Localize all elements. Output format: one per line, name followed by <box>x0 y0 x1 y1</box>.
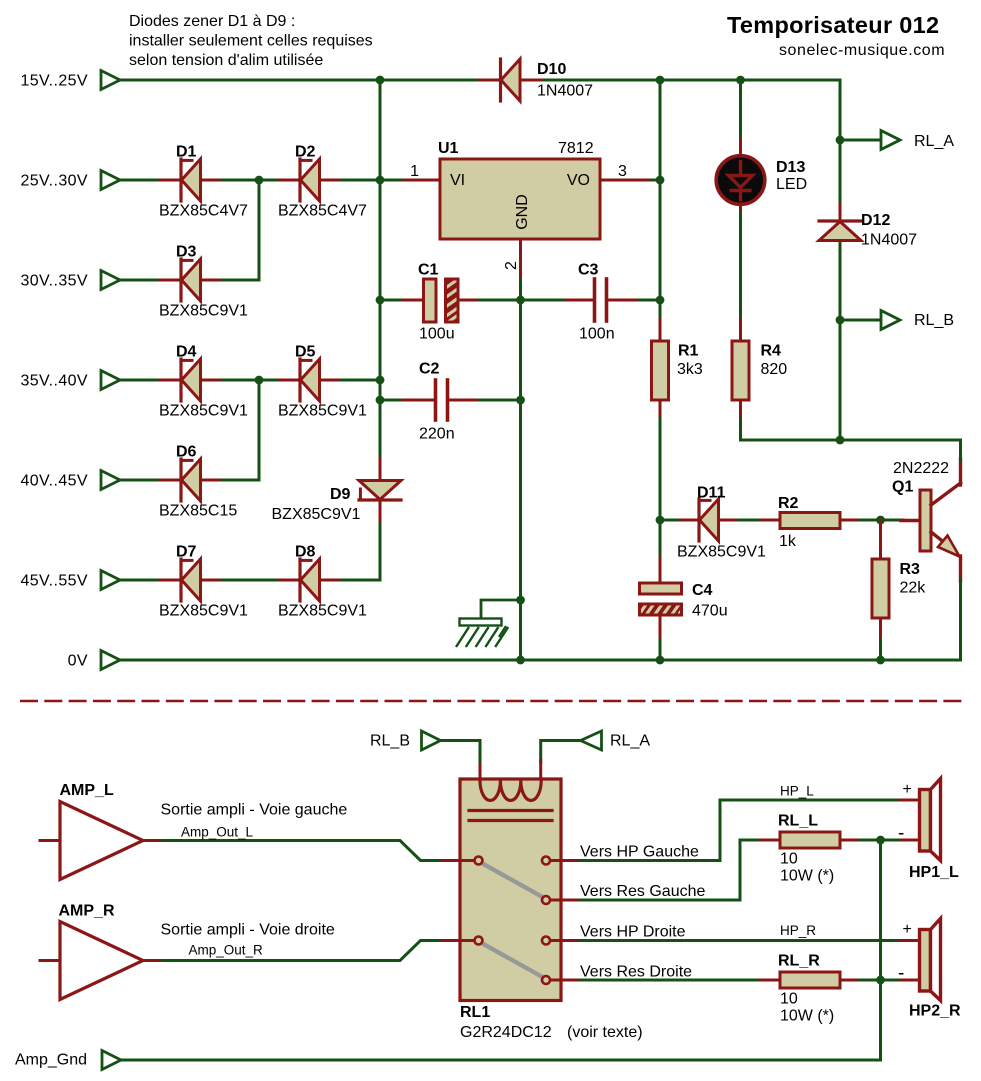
svg-text:D7: D7 <box>176 544 197 561</box>
svg-text:10W (*): 10W (*) <box>780 868 834 885</box>
svg-text:-: - <box>898 963 904 984</box>
wire D3 row input <box>120 279 157 282</box>
svg-text:BZX85C9V1: BZX85C9V1 <box>272 506 361 523</box>
terminal 45V..55V <box>20 571 120 590</box>
svg-text:BZX85C4V7: BZX85C4V7 <box>278 203 367 220</box>
wire Vers Res Droite to RL_R <box>580 979 762 982</box>
wire U1 pin2 ground <box>503 239 521 660</box>
svg-text:C1: C1 <box>418 262 439 279</box>
svg-text:30V..35V: 30V..35V <box>20 273 88 290</box>
svg-text:RL_A: RL_A <box>610 733 650 750</box>
svg-text:3k3: 3k3 <box>677 361 703 378</box>
svg-text:Amp_Out_L: Amp_Out_L <box>181 825 254 840</box>
svg-text:BZX85C9V1: BZX85C9V1 <box>677 544 766 561</box>
svg-text:Sortie ampli - Voie droite: Sortie ampli - Voie droite <box>161 922 335 939</box>
ground <box>456 600 521 647</box>
speaker HP2_R <box>898 919 961 1020</box>
wire C1 to bus <box>380 299 400 302</box>
resistor RL_R 10 <box>760 953 862 1025</box>
resistor R4 820 <box>732 319 787 421</box>
svg-text:Vers Res Droite: Vers Res Droite <box>580 964 692 981</box>
relay pin HP R <box>542 937 582 945</box>
wire D1-D2 junction segment <box>222 179 276 182</box>
wire RL_R to speaker minus node <box>860 979 881 982</box>
note: diodes zener instructions <box>129 13 373 69</box>
svg-text:Sortie ampli - Voie gauche: Sortie ampli - Voie gauche <box>161 802 348 819</box>
svg-text:-: - <box>898 823 904 844</box>
node junction bus/D5 row <box>376 376 385 385</box>
svg-text:Diodes zener D1 à D9 :: Diodes zener D1 à D9 : <box>129 13 295 30</box>
svg-text:3: 3 <box>618 163 627 180</box>
zener diode D11 BZX85C9V1 <box>675 485 766 561</box>
svg-text:Temporisateur 012: Temporisateur 012 <box>727 12 939 38</box>
svg-text:D13: D13 <box>776 159 805 176</box>
wire Vers Res Gauche to RL_L <box>580 840 762 900</box>
svg-text:35V..40V: 35V..40V <box>20 373 88 390</box>
zener diode D6 BZX85C15 <box>157 444 237 520</box>
diode D10 1N4007 <box>480 59 594 101</box>
svg-text:RL1: RL1 <box>460 1004 490 1021</box>
wire C2 to bus <box>380 399 400 402</box>
capacitor C4 470u (polarized, vertical) <box>640 520 728 642</box>
wire RL_L to speaker minus node <box>860 839 881 842</box>
wire C4 to rail <box>659 640 662 660</box>
svg-text:BZX85C9V1: BZX85C9V1 <box>159 303 248 320</box>
svg-text:Vers HP Gauche: Vers HP Gauche <box>580 844 699 861</box>
wire left bus x=380 lower (D9 to D8 row) <box>379 521 382 581</box>
node junction rail/C4 <box>656 656 665 665</box>
zener diode D9 BZX85C9V1 (vertical, pointing down) <box>272 460 402 524</box>
node junction pin2/C2 row <box>516 396 525 405</box>
wire C1 to pin2 node <box>479 299 521 302</box>
node junction top rail / LED branch <box>736 76 745 85</box>
wire LED to R4 <box>739 212 742 321</box>
svg-text:HP_R: HP_R <box>780 923 816 938</box>
node junction ground stub <box>516 596 525 605</box>
svg-text:sonelec-musique.com: sonelec-musique.com <box>779 42 945 59</box>
svg-text:D1: D1 <box>176 144 197 161</box>
wire base node to Q1 base <box>881 519 904 522</box>
wire HP2 plus red stub <box>900 939 920 942</box>
relay pin Res L <box>542 896 582 904</box>
wire D6 row input <box>120 479 157 482</box>
node junction R4 wire / RL bus <box>836 436 845 445</box>
svg-text:BZX85C9V1: BZX85C9V1 <box>278 403 367 420</box>
svg-text:VI: VI <box>450 172 465 189</box>
terminal Amp_Gnd <box>15 1051 121 1070</box>
terminal 0V <box>68 651 120 670</box>
wire U1 pin1 input <box>380 163 440 180</box>
svg-text:10: 10 <box>780 851 798 868</box>
svg-text:RL_B: RL_B <box>914 312 954 329</box>
wire Amp_Out_L to relay <box>141 841 474 861</box>
wire RL_A to relay coil right <box>541 741 581 782</box>
svg-text:10W (*): 10W (*) <box>780 1008 834 1025</box>
zener diode D8 BZX85C9V1 <box>276 544 367 620</box>
svg-text:BZX85C9V1: BZX85C9V1 <box>159 603 248 620</box>
capacitor C2 220n <box>398 361 481 443</box>
svg-text:selon tension d'alim utilisée: selon tension d'alim utilisée <box>129 52 323 69</box>
resistor RL_L 10 <box>760 813 862 885</box>
svg-text:R4: R4 <box>761 343 782 360</box>
terminal 35V..40V <box>20 371 120 390</box>
svg-text:D6: D6 <box>176 444 197 461</box>
svg-text:D4: D4 <box>176 344 197 361</box>
svg-text:D8: D8 <box>295 544 316 561</box>
svg-text:Amp_Gnd: Amp_Gnd <box>15 1052 87 1069</box>
svg-text:BZX85C15: BZX85C15 <box>159 503 237 520</box>
wire RL bus x=840 upper <box>839 140 842 206</box>
wire D4 row input <box>120 379 157 382</box>
svg-text:Vers Res Gauche: Vers Res Gauche <box>580 883 706 900</box>
node junction VO / right bus <box>656 176 665 185</box>
wire U1 pin3 output <box>600 163 660 180</box>
svg-text:installer seulement celles req: installer seulement celles requises <box>129 33 373 50</box>
transistor Q1 2N2222 <box>892 459 961 581</box>
relay pin common L <box>443 857 483 865</box>
svg-text:+: + <box>903 781 912 798</box>
svg-text:RL_R: RL_R <box>778 953 820 970</box>
relay RL1 G2R24DC12 box <box>460 779 643 1041</box>
svg-text:D11: D11 <box>697 485 726 502</box>
node junction bus/C1 row <box>376 296 385 305</box>
svg-text:1N4007: 1N4007 <box>537 83 593 100</box>
node junction RL_A branch <box>836 136 845 145</box>
svg-text:LED: LED <box>776 176 807 193</box>
relay pin common R <box>443 937 483 945</box>
node junction RL_L/speaker minus <box>876 836 885 845</box>
svg-text:Q1: Q1 <box>892 479 913 496</box>
svg-text:+: + <box>903 921 912 938</box>
wire 0V rail <box>120 655 961 660</box>
wire D11 to R2 <box>738 519 763 522</box>
wire D5 to bus <box>341 379 380 382</box>
svg-text:RL_L: RL_L <box>778 813 818 830</box>
svg-text:1N4007: 1N4007 <box>861 232 917 249</box>
wire D12 to RL_B node <box>839 244 842 440</box>
terminal RL_B (top) <box>840 311 954 330</box>
node junction rail/R3 <box>876 656 885 665</box>
svg-text:GND: GND <box>514 194 531 230</box>
wire LED branch upper <box>739 80 742 141</box>
zener diode D5 BZX85C9V1 <box>276 344 367 420</box>
node junction C3 / right bus <box>656 296 665 305</box>
LED D13 <box>716 139 807 214</box>
zener diode D3 BZX85C9V1 <box>157 244 248 320</box>
capacitor C3 100n <box>561 262 641 343</box>
wire top rail right (D10 to corner x840) <box>541 80 840 141</box>
wire collector from R4 corner <box>959 440 962 461</box>
node junction rail/pin2 <box>516 656 525 665</box>
svg-text:U1: U1 <box>438 140 459 157</box>
svg-text:BZX85C9V1: BZX85C9V1 <box>278 603 367 620</box>
svg-text:470u: 470u <box>692 603 728 620</box>
svg-text:100n: 100n <box>579 326 615 343</box>
speaker HP1_L <box>898 779 959 882</box>
svg-text:820: 820 <box>761 361 788 378</box>
op-amp AMP_R (amplifier triangle) <box>40 903 143 1000</box>
svg-text:AMP_L: AMP_L <box>60 782 114 799</box>
svg-text:Amp_Out_R: Amp_Out_R <box>189 943 264 958</box>
svg-text:0V: 0V <box>68 653 88 670</box>
terminal 40V..45V <box>20 471 120 490</box>
svg-text:220n: 220n <box>419 426 455 443</box>
node junction D1/D2/D3 <box>255 176 264 185</box>
wire emitter to 0V rail <box>959 579 962 660</box>
wire HP1 plus red stub <box>900 799 920 802</box>
svg-text:22k: 22k <box>900 580 927 597</box>
node junction R2/R3/base <box>876 516 885 525</box>
svg-text:C4: C4 <box>692 582 713 599</box>
zener diode D7 BZX85C9V1 <box>157 544 248 620</box>
svg-text:R3: R3 <box>900 561 921 578</box>
terminal 15V..25V <box>20 71 120 90</box>
svg-text:D12: D12 <box>861 212 890 229</box>
svg-text:7812: 7812 <box>558 140 594 157</box>
relay pin HP L <box>542 857 582 865</box>
svg-text:D5: D5 <box>295 344 316 361</box>
node junction RL_R/speaker minus <box>876 976 885 985</box>
wire top rail left (15V..25V to D10) <box>120 79 480 82</box>
wire D11 node to D11 <box>660 519 677 522</box>
node junction D4/D5/D6 <box>255 376 264 385</box>
svg-text:VO: VO <box>567 172 590 189</box>
wire R3 to rail <box>879 640 882 660</box>
op-amp U1 7812 regulator box <box>438 140 600 239</box>
op-amp AMP_L (amplifier triangle) <box>40 782 143 880</box>
node junction top rail / left bus <box>376 76 385 85</box>
svg-text:2: 2 <box>503 261 520 270</box>
svg-text:D10: D10 <box>537 61 566 78</box>
svg-text:R1: R1 <box>678 343 699 360</box>
capacitor C1 100u (polarized) <box>398 262 481 343</box>
svg-text:BZX85C4V7: BZX85C4V7 <box>159 203 248 220</box>
wire D7-D8 segment <box>222 579 276 582</box>
svg-text:D3: D3 <box>176 244 197 261</box>
wire Vers HP Gauche to speaker plus <box>580 800 902 861</box>
wire dashed separator line <box>20 700 963 703</box>
relay pin Res R <box>542 976 582 984</box>
wire C3 to right bus <box>639 299 660 302</box>
wire node to HP1 minus <box>881 839 921 842</box>
svg-text:HP_L: HP_L <box>780 784 814 799</box>
wire Vers HP Droite to speaker plus <box>580 939 902 942</box>
svg-text:2N2222: 2N2222 <box>893 460 949 477</box>
wire Amp_Gnd rail <box>121 1059 881 1062</box>
wire D8 to bus corner <box>341 579 380 582</box>
svg-text:1: 1 <box>410 163 419 180</box>
zener diode D4 BZX85C9V1 <box>157 344 248 420</box>
svg-text:RL_A: RL_A <box>914 133 954 150</box>
svg-text:BZX85C9V1: BZX85C9V1 <box>159 403 248 420</box>
terminal 30V..35V <box>20 271 120 290</box>
svg-text:R2: R2 <box>778 495 799 512</box>
wire D4-D5 segment <box>222 379 276 382</box>
svg-text:1k: 1k <box>779 533 797 550</box>
svg-text:25V..30V: 25V..30V <box>20 173 88 190</box>
node junction RL_B branch <box>836 316 845 325</box>
svg-text:D2: D2 <box>295 144 316 161</box>
diode D12 1N4007 (vertical, pointing up) <box>819 204 917 262</box>
wire RL_B to relay coil left <box>441 741 481 782</box>
svg-text:45V..55V: 45V..55V <box>20 573 88 590</box>
svg-text:AMP_R: AMP_R <box>59 903 115 920</box>
wire D2 to bus <box>341 179 380 182</box>
wire C2 to pin2 vertical <box>479 399 521 402</box>
svg-text:D9: D9 <box>330 486 351 503</box>
wire x880 vertical speaker-minus bus <box>879 840 882 1060</box>
relay blade left channel (gray) <box>483 864 543 898</box>
wire pin2 node to C3 <box>521 299 564 302</box>
wire D7 row input <box>120 579 157 582</box>
svg-text:10: 10 <box>780 991 798 1008</box>
resistor R3 22k <box>872 520 926 642</box>
terminal RL_A (top) <box>840 131 954 151</box>
zener diode D2 BZX85C4V7 <box>276 144 367 220</box>
svg-text:100u: 100u <box>419 326 455 343</box>
svg-text:C3: C3 <box>578 262 599 279</box>
wire R2 to base node <box>860 519 881 522</box>
svg-text:HP1_L: HP1_L <box>909 864 959 881</box>
wire D3 output up to D1-D2 junction <box>222 185 259 280</box>
node junction bus/C2 row <box>376 396 385 405</box>
svg-text:RL_B: RL_B <box>370 733 410 750</box>
svg-text:C2: C2 <box>419 361 440 378</box>
svg-text:(voir texte): (voir texte) <box>567 1024 643 1041</box>
node junction R1/D11/C4 <box>656 516 665 525</box>
node junction pin2/C1-C3 row <box>516 296 525 305</box>
terminal RL_A (bottom) <box>581 731 651 750</box>
svg-text:HP2_R: HP2_R <box>909 1003 961 1020</box>
svg-text:15V..25V: 15V..25V <box>20 73 88 90</box>
wire D6 output up to D4-D5 junction <box>222 385 259 480</box>
resistor R1 3k3 <box>652 319 703 420</box>
svg-text:40V..45V: 40V..45V <box>20 473 88 490</box>
wire Amp_Out_R to relay <box>141 941 474 961</box>
node junction top rail / U1 output bus <box>656 76 665 85</box>
wire right bus x=660 (rail to R1) <box>659 80 662 321</box>
wire R4 down and right to collector corner <box>741 419 961 440</box>
zener diode D1 BZX85C4V7 <box>157 144 248 220</box>
terminal RL_B (bottom) <box>370 731 441 750</box>
terminal 25V..30V <box>20 171 120 190</box>
wire 15V row terminal handled above; D1 row wires <box>120 179 157 182</box>
node junction bus/D2 row <box>376 176 385 185</box>
wire node to HP2 minus <box>881 979 921 982</box>
wire left bus x=380 upper (rail to D9) <box>379 80 382 460</box>
resistor R2 1k <box>761 495 862 550</box>
wire R1 to D11 node <box>659 418 662 520</box>
svg-text:G2R24DC12: G2R24DC12 <box>460 1024 552 1041</box>
svg-text:Vers HP Droite: Vers HP Droite <box>580 924 686 941</box>
relay blade right channel (gray) <box>483 944 543 978</box>
